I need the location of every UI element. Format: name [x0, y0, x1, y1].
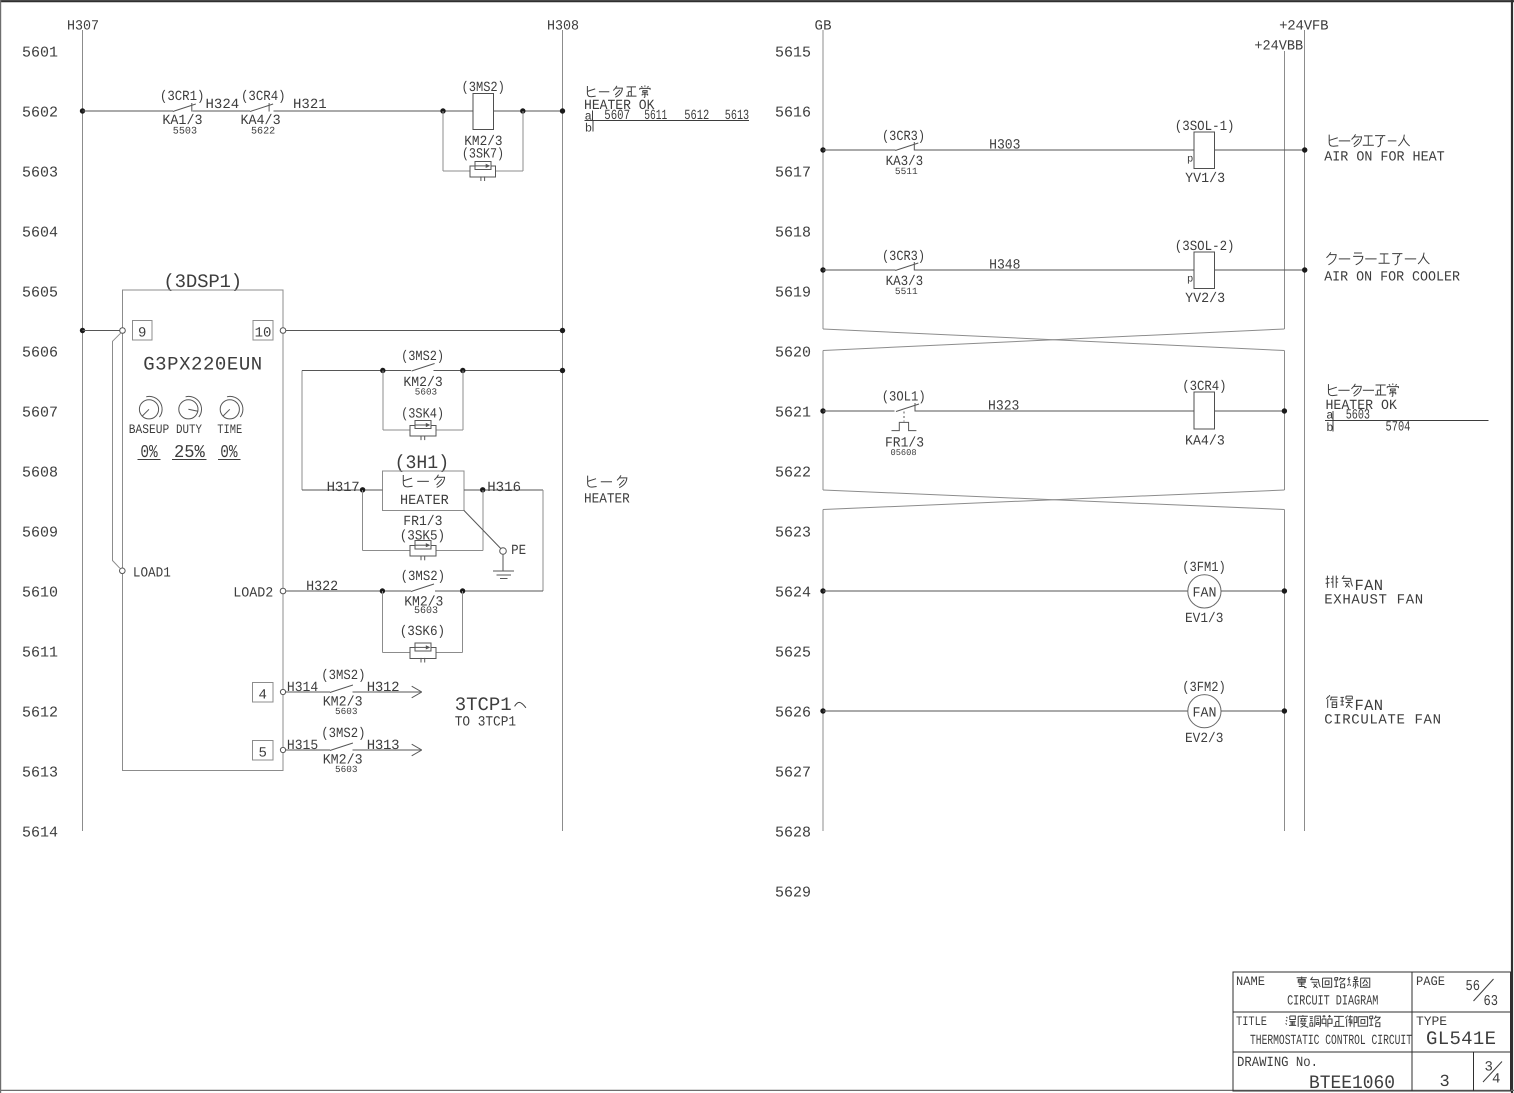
svg-text:5629: 5629: [775, 884, 811, 901]
wire H322: [286, 579, 411, 595]
svg-text:TYPE: TYPE: [1416, 1014, 1447, 1029]
label heater (ヒータ HEATER) right of rung 5608: [584, 475, 630, 507]
title block DRAWING No cell BTEE1060: [1237, 1055, 1395, 1093]
svg-text:b: b: [585, 122, 592, 136]
svg-text:b: b: [1326, 421, 1333, 435]
wire heater to PE: [464, 510, 501, 548]
contact KA1/3 (3CR1) with labels: [160, 89, 205, 138]
coil KM2/3 (3MS2) rung 5602: [462, 80, 505, 163]
svg-text:LOAD1: LOAD1: [133, 566, 171, 582]
pin 5 number box: [253, 741, 273, 762]
svg-text:p: p: [1187, 154, 1193, 166]
svg-text:H348: H348: [989, 258, 1020, 274]
wire left riser of KM2/3 contact row 5606: [301, 371, 303, 490]
wire fan to +24VBB rung 5624: [1221, 590, 1284, 592]
label EXHAUST FAN: [1324, 575, 1423, 608]
svg-text:10: 10: [255, 326, 272, 342]
wire rung 5619 GB to contact: [823, 269, 895, 271]
svg-text:5627: 5627: [775, 764, 811, 781]
terminal PE with label: [500, 543, 526, 559]
contact KA3/3 (3CR3) rung 5617 with labels: [882, 129, 925, 177]
svg-text:3TCP1: 3TCP1: [455, 694, 512, 716]
wire coil to +24VFB rung 5617: [1215, 149, 1305, 151]
title block grid: [1233, 972, 1511, 1091]
svg-text:5609: 5609: [22, 524, 58, 541]
junction GB rung 5626: [820, 708, 825, 713]
svg-text:5613: 5613: [22, 764, 58, 781]
svg-text:5617: 5617: [775, 164, 811, 181]
wire H321: [273, 97, 473, 113]
svg-text:5511: 5511: [895, 166, 918, 177]
junction on H307 pin-9 row: [80, 328, 85, 333]
svg-text:(3FM1): (3FM1): [1182, 560, 1226, 576]
svg-text:AIR ON FOR COOLER: AIR ON FOR COOLER: [1324, 270, 1460, 286]
net +24VBB vertical wire segments: [1283, 51, 1285, 831]
svg-text:5615: 5615: [775, 44, 811, 61]
solenoid coil YV1/3 (3SOL-1): [1175, 119, 1235, 187]
net GB vertical bus wire segments: [822, 30, 824, 831]
svg-text:THERMOSTATIC CONTROL CIRCUIT: THERMOSTATIC CONTROL CIRCUIT: [1250, 1033, 1412, 1049]
svg-text:5625: 5625: [775, 644, 811, 661]
terminal LOAD2: [233, 586, 286, 602]
svg-text:(3CR1): (3CR1): [160, 89, 205, 105]
svg-text:(3MS2): (3MS2): [321, 668, 365, 684]
pin 4 terminal circle: [280, 689, 285, 694]
node H316 wire: [464, 480, 543, 496]
svg-text:p: p: [1187, 274, 1193, 286]
wire rung 5617 GB to contact: [823, 149, 895, 151]
knob DUTY: [176, 396, 202, 437]
svg-text:5608: 5608: [22, 464, 58, 481]
svg-text:BASEUP: BASEUP: [129, 422, 170, 437]
junction row 5606 left: [380, 368, 385, 373]
net H307 vertical bus wire: [82, 30, 84, 831]
svg-text:LOAD2: LOAD2: [233, 586, 273, 602]
rung number labels 5615-5629 (right): [775, 44, 811, 901]
junction on H307 row 5602: [80, 108, 85, 113]
svg-text:DRAWING No.: DRAWING No.: [1237, 1055, 1318, 1071]
pin 4 number box: [253, 683, 273, 704]
junction GB rung 5621: [820, 408, 825, 413]
svg-text:EV2/3: EV2/3: [1185, 731, 1223, 747]
svg-text:HEATER: HEATER: [400, 493, 449, 509]
label CIRCULATE FAN: [1324, 695, 1441, 728]
contact KM2/3 (3MS2) rung 5610 with labels: [401, 569, 446, 617]
wire H307 to pin 9: [83, 330, 120, 332]
wire row 5606 to contact: [302, 370, 411, 372]
wire H324: [192, 97, 250, 113]
svg-text:PE: PE: [511, 543, 526, 559]
svg-text:NAME: NAME: [1236, 974, 1265, 989]
svg-text:DUTY: DUTY: [176, 422, 202, 437]
svg-text:5610: 5610: [22, 584, 58, 601]
svg-text:5622: 5622: [251, 127, 275, 138]
svg-text:3: 3: [1440, 1073, 1450, 1092]
fan motor EV2/3 (3FM2): [1182, 680, 1226, 747]
svg-text:FAN: FAN: [1193, 706, 1217, 722]
cross-reference table HEATER OK rung 5621: [1325, 383, 1489, 435]
svg-text:5601: 5601: [22, 44, 58, 61]
ground symbol PE: [493, 554, 514, 578]
svg-text:5605: 5605: [22, 284, 58, 301]
svg-text:EXHAUST FAN: EXHAUST FAN: [1324, 593, 1423, 609]
svg-text:(3FM2): (3FM2): [1182, 680, 1226, 696]
svg-text:(3MS2): (3MS2): [321, 726, 365, 742]
wire rung 5621 GB to overload contact: [823, 410, 895, 412]
svg-text:5613: 5613: [725, 108, 749, 124]
svg-text:56: 56: [1466, 978, 1481, 995]
contact KM2/3 (3MS2) H315-H313 with labels: [321, 726, 365, 775]
thermal overload contact FR1/3 (3OL1) with labels: [882, 390, 926, 458]
svg-text:(3CR3): (3CR3): [882, 129, 925, 145]
svg-text:9: 9: [138, 326, 146, 342]
svg-text:(3MS2): (3MS2): [401, 569, 446, 585]
wire H314: [286, 680, 330, 696]
svg-text:5503: 5503: [173, 127, 197, 138]
wire coil to +24VBB rung 5621: [1215, 410, 1285, 412]
svg-text:5602: 5602: [22, 104, 58, 121]
svg-text:5511: 5511: [895, 286, 918, 297]
junction GB rung 5619: [820, 267, 825, 272]
knob TIME: [217, 396, 243, 437]
svg-text:5603: 5603: [415, 387, 437, 398]
pin 10 number box: [253, 321, 273, 342]
contact KM2/3 (3MS2) rung 5606 with labels: [401, 349, 444, 398]
fan motor EV1/3 (3FM1): [1182, 560, 1226, 627]
wire rung 5626 GB to fan: [823, 710, 1188, 712]
title block TITLE cell: [1236, 1014, 1412, 1049]
svg-text:(3SK6): (3SK6): [400, 624, 445, 640]
svg-text:5623: 5623: [775, 524, 811, 541]
svg-text:CIRCULATE FAN: CIRCULATE FAN: [1324, 713, 1441, 729]
svg-text:+24VBB: +24VBB: [1254, 39, 1303, 55]
rung number labels 5601-5614 (left): [22, 44, 58, 841]
controller U1 (3DSP1) outline box: [123, 271, 284, 771]
svg-text:H315: H315: [287, 738, 318, 754]
svg-text:H316: H316: [487, 480, 521, 496]
svg-text:63: 63: [1484, 993, 1499, 1010]
title block TYPE cell GL541E: [1416, 1014, 1496, 1050]
svg-text:(3SK7): (3SK7): [462, 147, 504, 163]
junction H316: [480, 487, 485, 492]
wire H316 riser to rung 5610: [542, 490, 544, 591]
surge killer 3SK6 parallel branch: [382, 591, 462, 663]
terminal LOAD1: [120, 566, 171, 582]
solenoid coil YV2/3 (3SOL-2): [1175, 239, 1235, 307]
junction row 5606 right: [460, 368, 465, 373]
svg-text:H323: H323: [988, 399, 1019, 415]
junction +24VFB rung 5619: [1302, 267, 1307, 272]
svg-text:BTEE1060: BTEE1060: [1309, 1072, 1395, 1093]
svg-text:FAN: FAN: [1193, 586, 1217, 602]
value 0% BASEUP: [138, 443, 161, 463]
crossover wires between sections 2 and 3: [823, 490, 1284, 510]
svg-text:EV1/3: EV1/3: [1185, 611, 1223, 627]
junction +24VFB rung 5617: [1302, 147, 1307, 152]
svg-text:5607: 5607: [22, 404, 58, 421]
junction on H308 pin-10 row: [560, 328, 565, 333]
contact KM2/3 (3MS2) H314-H312 with labels: [321, 668, 365, 717]
junction +24VBB rung 5626: [1282, 708, 1287, 713]
svg-text:5603: 5603: [414, 606, 438, 617]
overload FR1/3 with surge killer 3SK5 parallel branch: [363, 490, 483, 561]
net +24VFB vertical bus wire: [1304, 30, 1306, 831]
value 0% TIME: [218, 443, 241, 463]
svg-text:5612: 5612: [22, 704, 58, 721]
svg-text:(3CR3): (3CR3): [882, 249, 925, 265]
svg-text:5619: 5619: [775, 284, 811, 301]
label AIR ON FOR HEAT: [1324, 134, 1445, 165]
cross-reference table HEATER OK rung 5602: [584, 85, 749, 135]
svg-text:5604: 5604: [22, 224, 58, 241]
label TO 3TCP1: [455, 694, 526, 731]
junction rung 5610 left: [380, 588, 385, 593]
svg-text:TO 3TCP1: TO 3TCP1: [455, 715, 516, 731]
junction row 5602 left of coil: [440, 108, 445, 113]
net H308 vertical bus wire: [562, 30, 564, 831]
svg-text:5603: 5603: [22, 164, 58, 181]
wire H348: [914, 258, 1194, 274]
svg-text:YV1/3: YV1/3: [1185, 171, 1225, 187]
wire row 5602 from H307 to contact 3CR1: [83, 110, 173, 112]
wire contact to H308 row 5606: [434, 370, 563, 372]
junction GB rung 5617: [820, 147, 825, 152]
svg-text:5614: 5614: [22, 824, 58, 841]
wire H312 with arrow to 3TCP1: [352, 680, 421, 698]
contact KA3/3 (3CR3) rung 5619 with labels: [882, 249, 925, 297]
junction H317: [360, 487, 365, 492]
wire H313 with arrow to 3TCP1: [352, 738, 421, 756]
svg-text:TIME: TIME: [217, 422, 242, 437]
page border frame: [0, 0, 1514, 2]
pin 5 terminal circle: [280, 747, 285, 752]
surge killer 3SK4 parallel branch: [383, 371, 463, 441]
wire H303: [914, 138, 1194, 154]
svg-text:CIRCUIT DIAGRAM: CIRCUIT DIAGRAM: [1287, 994, 1378, 1010]
svg-text:(3OL1): (3OL1): [882, 390, 926, 406]
svg-text:05608: 05608: [891, 448, 917, 458]
svg-text:5611: 5611: [644, 108, 667, 124]
junction +24VBB rung 5624: [1282, 588, 1287, 593]
svg-text:H322: H322: [306, 579, 338, 595]
svg-text:(3MS2): (3MS2): [401, 349, 444, 365]
junction GB rung 5624: [820, 588, 825, 593]
junction row 5602 right of coil: [520, 108, 525, 113]
wire coil to H308 row 5602: [493, 110, 562, 112]
wire rung 5624 GB to fan: [823, 590, 1188, 592]
crossover wires between sections 1 and 2: [823, 329, 1284, 351]
svg-text:5622: 5622: [775, 464, 811, 481]
svg-text:5607: 5607: [604, 108, 630, 124]
junction +24VBB rung 5621: [1282, 408, 1287, 413]
label AIR ON FOR COOLER: [1324, 252, 1460, 285]
value 25% DUTY: [172, 443, 207, 463]
title block PAGE cell 56/63: [1416, 974, 1498, 1010]
wire H323: [915, 399, 1194, 415]
svg-text:5704: 5704: [1386, 420, 1411, 436]
svg-text:4: 4: [259, 688, 267, 704]
svg-text:G3PX220EUN: G3PX220EUN: [143, 354, 262, 376]
svg-text:5611: 5611: [22, 644, 58, 661]
node H317 wire: [302, 480, 383, 496]
svg-text:H314: H314: [287, 680, 318, 696]
contact KA4/3 (3CR4) with labels: [241, 89, 286, 138]
wire contact to riser rung 5610: [435, 590, 543, 592]
pin 10 terminal circle: [280, 328, 286, 334]
junction on H308 row 5606: [560, 368, 565, 373]
svg-text:H324: H324: [206, 97, 240, 113]
heater 3H1 box: [383, 452, 464, 510]
svg-text:AIR ON FOR HEAT: AIR ON FOR HEAT: [1324, 150, 1445, 166]
svg-text:H303: H303: [989, 138, 1020, 154]
svg-text:5621: 5621: [775, 404, 811, 421]
svg-text:KA4/3: KA4/3: [1185, 434, 1225, 450]
svg-text:TITLE: TITLE: [1236, 1014, 1267, 1029]
svg-text:5612: 5612: [684, 108, 709, 124]
svg-text:5628: 5628: [775, 824, 811, 841]
svg-text:H317: H317: [327, 480, 360, 496]
svg-text:PAGE: PAGE: [1416, 974, 1445, 989]
pin 9 number box: [132, 321, 152, 342]
junction rung 5610 right: [460, 588, 465, 593]
svg-text:5626: 5626: [775, 704, 811, 721]
svg-text:5618: 5618: [775, 224, 811, 241]
svg-text:(3CR4): (3CR4): [241, 89, 286, 105]
svg-text:5603: 5603: [335, 706, 358, 717]
svg-text:5603: 5603: [1346, 408, 1370, 424]
svg-text:GL541E: GL541E: [1426, 1028, 1496, 1050]
svg-text:HEATER: HEATER: [584, 492, 630, 508]
svg-text:5620: 5620: [775, 344, 811, 361]
svg-text:H313: H313: [367, 738, 400, 754]
svg-text:+24VFB: +24VFB: [1279, 19, 1328, 35]
svg-text:5606: 5606: [22, 344, 58, 361]
wire pin 10 to H308: [286, 330, 563, 332]
relay coil KA4/3 (3CR4): [1182, 379, 1226, 450]
svg-text:H312: H312: [367, 680, 400, 696]
pin 9 terminal circle: [120, 328, 126, 334]
svg-text:5603: 5603: [335, 764, 358, 775]
junction on H308 row 5602: [560, 108, 565, 113]
svg-text:5: 5: [259, 746, 267, 762]
svg-text:H321: H321: [293, 97, 327, 113]
title block NAME cell: [1236, 974, 1378, 1010]
svg-text:4: 4: [1492, 1072, 1500, 1088]
wire fan to +24VBB rung 5626: [1221, 710, 1284, 712]
svg-text:5624: 5624: [775, 584, 811, 601]
surge killer 3SK7 parallel branch: [443, 111, 523, 181]
svg-text:YV2/3: YV2/3: [1185, 291, 1225, 307]
title block sheet fraction 3/4: [1483, 1060, 1502, 1088]
knob BASEUP: [129, 396, 170, 437]
wire pin 9 to LOAD1: [113, 333, 122, 569]
wire H315: [286, 738, 330, 754]
wire coil to +24VFB rung 5619: [1215, 269, 1305, 271]
svg-text:5616: 5616: [775, 104, 811, 121]
